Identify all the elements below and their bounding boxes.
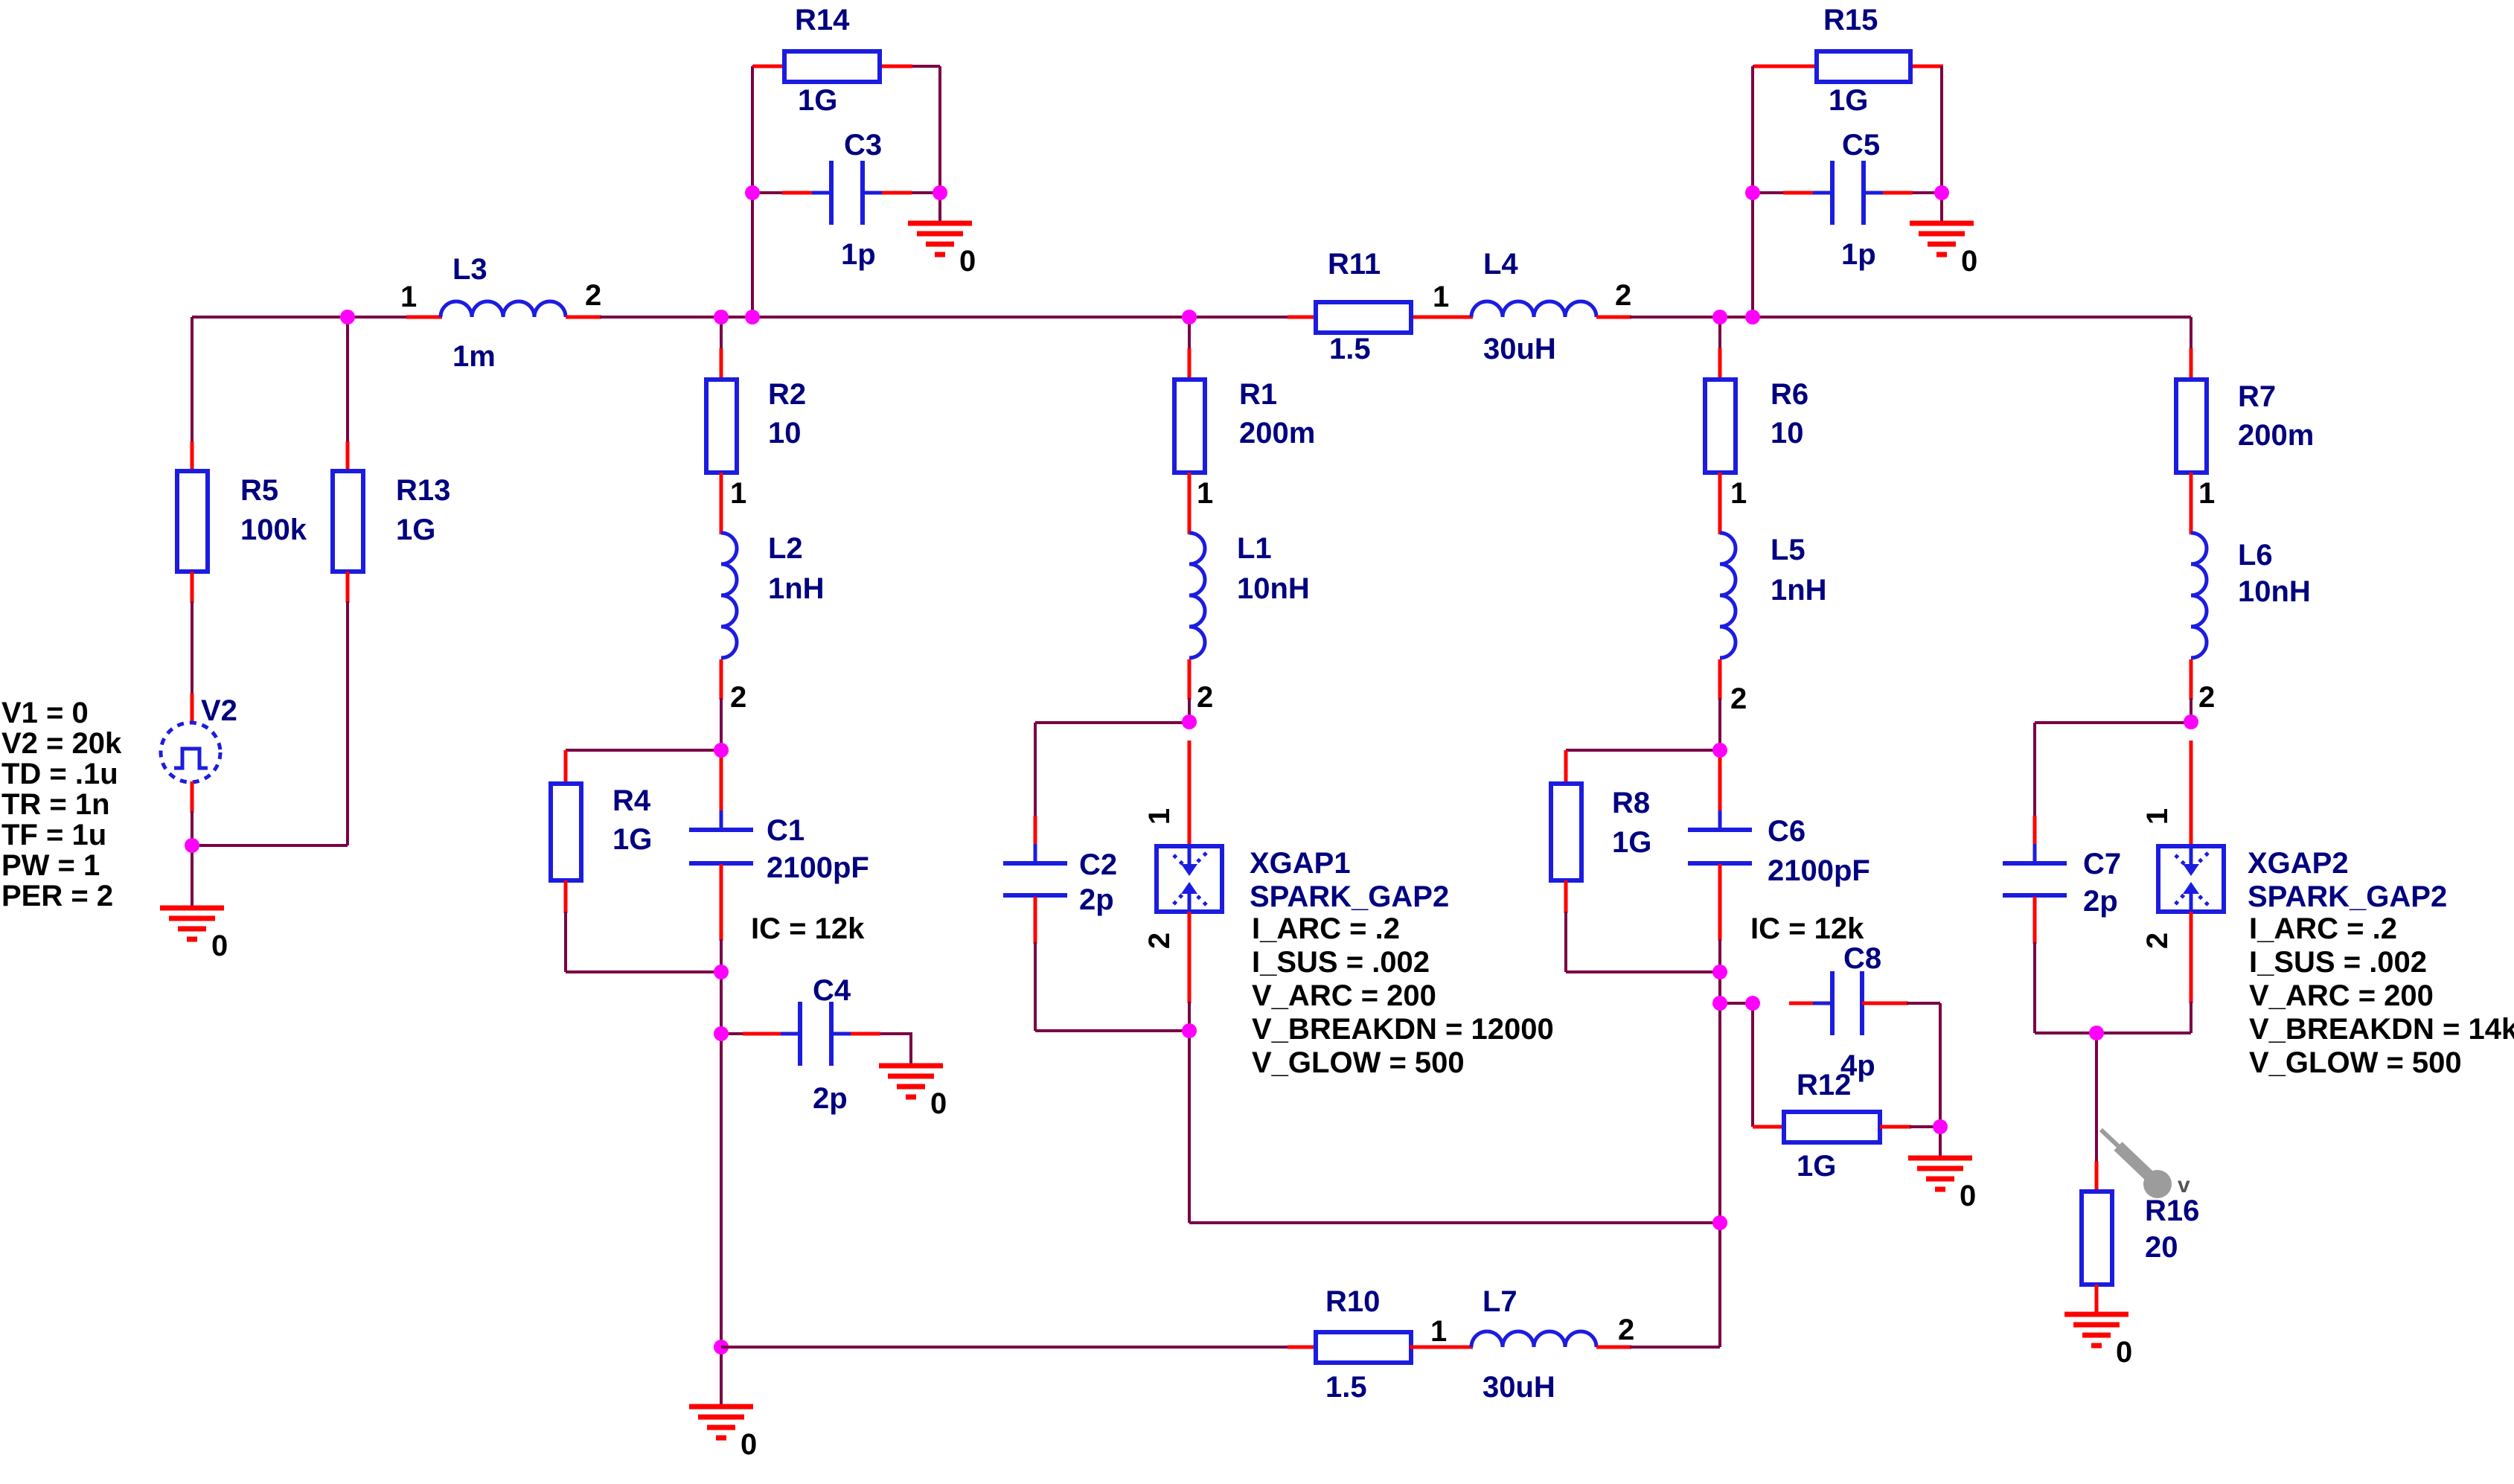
svg-text:TD = .1u: TD = .1u <box>1 758 118 790</box>
svg-text:0: 0 <box>959 245 976 278</box>
wire gnd stub D top <box>1940 193 1943 223</box>
svg-text:R2: R2 <box>768 378 806 411</box>
wire top bus right <box>1630 316 2191 319</box>
wire L5 to node <box>1718 698 1721 750</box>
svg-text:1G: 1G <box>396 514 435 546</box>
wire R4 left vertical <box>564 912 567 972</box>
svg-text:1: 1 <box>400 281 417 313</box>
inductor L7 coil <box>1471 1331 1596 1347</box>
svg-text:1: 1 <box>2141 808 2174 825</box>
node R16 tap <box>2089 1026 2104 1040</box>
label V2 parameters <box>1 697 122 912</box>
resistor R4 <box>551 784 581 880</box>
wire C7 top row <box>2035 721 2191 724</box>
svg-text:2p: 2p <box>2083 885 2118 918</box>
svg-text:2: 2 <box>1143 933 1176 949</box>
wire bottom bus right <box>1630 1346 1720 1349</box>
wire C2 left vertical lower <box>1034 942 1037 1031</box>
svg-text:PER = 2: PER = 2 <box>1 880 113 912</box>
node bus B loop <box>745 310 760 324</box>
label XGAP1 parameters <box>1252 912 1554 1079</box>
svg-text:C2: C2 <box>1079 848 1117 881</box>
svg-text:1: 1 <box>1143 808 1176 825</box>
svg-text:TF = 1u: TF = 1u <box>1 819 106 851</box>
resistor R13 <box>333 471 363 572</box>
node XGAP1 wire junction <box>1712 1215 1727 1230</box>
svg-text:SPARK_GAP2: SPARK_GAP2 <box>2248 880 2447 913</box>
svg-text:R12: R12 <box>1797 1069 1851 1101</box>
capacitor C5 <box>1813 161 1883 225</box>
svg-text:R15: R15 <box>1823 4 1878 36</box>
svg-text:200m: 200m <box>1239 417 1315 450</box>
svg-text:R5: R5 <box>240 474 278 507</box>
resistor R10 <box>1316 1332 1411 1363</box>
svg-text:1: 1 <box>2198 477 2215 510</box>
wire top bus mid <box>600 316 1289 319</box>
svg-text:2: 2 <box>1197 681 1213 714</box>
wire bottom bus left <box>721 1346 1289 1349</box>
svg-text:C8: C8 <box>1843 942 1881 975</box>
svg-text:1G: 1G <box>612 823 652 856</box>
svg-text:2: 2 <box>1618 1314 1634 1346</box>
wire E corner <box>2190 317 2192 350</box>
svg-text:30uH: 30uH <box>1483 333 1556 365</box>
svg-text:1nH: 1nH <box>1771 574 1827 607</box>
svg-text:1.5: 1.5 <box>1325 1371 1367 1404</box>
wire R13 down <box>346 601 349 845</box>
svg-text:1: 1 <box>1430 1315 1447 1348</box>
resistor R5 <box>177 471 208 572</box>
wire C8 right vertical <box>1939 1003 1942 1127</box>
svg-text:V1 = 0: V1 = 0 <box>1 697 89 729</box>
svg-text:1: 1 <box>1433 281 1449 313</box>
svg-text:C1: C1 <box>767 814 805 847</box>
inductor L2 coil <box>721 533 737 658</box>
svg-text:1: 1 <box>1730 477 1747 510</box>
svg-text:10nH: 10nH <box>1237 572 1310 605</box>
svg-text:10nH: 10nH <box>2238 575 2311 608</box>
resistor R7 <box>2176 380 2207 473</box>
svg-text:V2: V2 <box>201 694 237 727</box>
resistor R6 <box>1705 380 1736 473</box>
svg-text:2p: 2p <box>813 1082 848 1115</box>
svg-text:I_SUS = .002: I_SUS = .002 <box>2249 946 2427 979</box>
wire R16 drop <box>2095 1033 2098 1162</box>
svg-text:V_ARC = 200: V_ARC = 200 <box>1252 979 1436 1012</box>
resistor R14 <box>784 51 880 82</box>
wire XGAP1 to node <box>1188 1002 1191 1031</box>
wire B loop right vertical <box>938 66 941 194</box>
svg-text:R10: R10 <box>1325 1285 1380 1318</box>
node C5 left <box>1745 185 1760 200</box>
wire R4 top row <box>566 749 721 752</box>
svg-text:PW = 1: PW = 1 <box>1 849 100 882</box>
label XGAP2 parameters <box>2249 912 2514 1079</box>
ground R16 <box>2064 1314 2128 1346</box>
svg-text:0: 0 <box>1961 245 1977 278</box>
wire C5 row <box>1753 191 1942 194</box>
capacitor C4 <box>781 1002 851 1066</box>
node C5 right <box>1934 185 1949 200</box>
wire R5 to V2 <box>191 601 193 695</box>
wire R8 left vertical <box>1564 912 1567 972</box>
wire R6 stub <box>1718 317 1721 350</box>
svg-text:R4: R4 <box>612 784 651 817</box>
svg-text:I_SUS = .002: I_SUS = .002 <box>1252 946 1430 979</box>
wire V2 branch top <box>191 317 193 443</box>
svg-text:L2: L2 <box>768 532 803 565</box>
voltage probe V <box>2101 1130 2190 1198</box>
svg-text:0: 0 <box>211 930 228 962</box>
capacitor C6 <box>1688 810 1752 883</box>
wire C3 row <box>752 191 940 194</box>
svg-text:I_ARC = .2: I_ARC = .2 <box>1252 912 1400 945</box>
svg-text:C7: C7 <box>2083 848 2121 880</box>
svg-text:2100pF: 2100pF <box>1768 854 1870 887</box>
wire C4 row <box>721 1032 912 1035</box>
svg-text:10: 10 <box>1771 417 1804 450</box>
wire XGAP2 to node <box>2190 1002 2192 1033</box>
inductor L6 coil <box>2191 533 2207 658</box>
svg-text:R8: R8 <box>1612 787 1650 819</box>
svg-text:SPARK_GAP2: SPARK_GAP2 <box>1250 880 1449 913</box>
wire top bus left <box>192 316 406 319</box>
svg-text:I_ARC = .2: I_ARC = .2 <box>2249 912 2397 945</box>
svg-text:V_GLOW = 500: V_GLOW = 500 <box>1252 1046 1465 1079</box>
svg-text:2: 2 <box>585 279 601 312</box>
capacitor C2 <box>1003 844 1067 915</box>
wire B vertical mid <box>720 939 723 1347</box>
svg-text:R1: R1 <box>1239 378 1277 411</box>
inductor L1 coil <box>1189 533 1205 658</box>
svg-text:C4: C4 <box>813 974 851 1007</box>
svg-text:1G: 1G <box>1612 826 1651 859</box>
svg-text:C6: C6 <box>1768 815 1805 848</box>
node bus D loop <box>1745 310 1760 324</box>
node L2-R4 <box>714 743 729 758</box>
wire C7 left vertical lower <box>2033 942 2036 1033</box>
wire XGAP1 down <box>1188 1031 1191 1223</box>
wire C2 bottom row <box>1035 1029 1189 1032</box>
svg-text:0: 0 <box>2116 1336 2132 1369</box>
capacitor C8 <box>1813 971 1881 1035</box>
svg-text:V2 = 20k: V2 = 20k <box>1 727 122 760</box>
svg-text:1G: 1G <box>798 84 837 117</box>
svg-text:XGAP2: XGAP2 <box>2248 847 2349 880</box>
svg-text:V_GLOW = 500: V_GLOW = 500 <box>2249 1046 2462 1079</box>
wire R8 bottom row <box>1566 970 1720 973</box>
svg-text:1.5: 1.5 <box>1329 333 1371 365</box>
svg-text:2: 2 <box>730 681 746 714</box>
node C4 tap <box>714 1026 729 1041</box>
wire R2 stub <box>720 317 723 350</box>
inductor L4 coil <box>1471 301 1596 317</box>
wire C2 left vertical upper <box>1034 723 1037 817</box>
node C8 tap <box>1712 996 1727 1011</box>
svg-text:L6: L6 <box>2238 539 2273 572</box>
svg-text:L4: L4 <box>1483 248 1518 281</box>
resistor R12 <box>1784 1112 1880 1142</box>
wire L2 to node <box>720 698 723 750</box>
wire C7 bottom row <box>2035 1032 2191 1034</box>
svg-text:2: 2 <box>2198 681 2215 714</box>
capacitor C1 <box>689 810 753 883</box>
wire gnd stub A <box>191 845 193 908</box>
wire C7 left vertical upper <box>2033 723 2036 817</box>
wire R13 branch top <box>346 317 349 443</box>
svg-text:V_ARC = 200: V_ARC = 200 <box>2249 979 2434 1012</box>
node C3 right <box>933 185 947 200</box>
wire D loop right vertical <box>1940 66 1943 194</box>
svg-text:L1: L1 <box>1237 532 1272 565</box>
svg-text:R14: R14 <box>795 4 850 36</box>
resistor R8 <box>1551 784 1581 880</box>
wire V2 to gnd node <box>191 811 193 845</box>
node V2-gnd junction <box>185 838 199 853</box>
wire B loop left vertical <box>751 66 754 317</box>
inductor L5 coil <box>1720 533 1736 658</box>
node L1-C2 <box>1182 714 1197 729</box>
node L6-C7 <box>2184 714 2198 729</box>
svg-text:0: 0 <box>741 1428 757 1461</box>
wire gnd stub B top <box>938 193 941 223</box>
svg-text:1G: 1G <box>1797 1150 1836 1183</box>
node B bottom bus <box>714 1340 729 1355</box>
wire R4 bottom row <box>566 970 721 973</box>
resistor R15 <box>1817 51 1910 82</box>
wire R15 top row <box>1753 65 1942 68</box>
svg-text:XGAP1: XGAP1 <box>1250 847 1351 880</box>
svg-text:0: 0 <box>930 1087 947 1120</box>
wire XGAP1 bottom row <box>1189 1221 1720 1224</box>
svg-text:10: 10 <box>768 417 802 450</box>
resistor R16 <box>2082 1192 2112 1285</box>
capacitor C3 <box>812 161 882 225</box>
svg-text:L5: L5 <box>1771 534 1805 566</box>
svg-text:1G: 1G <box>1829 84 1868 117</box>
wire R8 top row <box>1566 749 1720 752</box>
svg-text:R16: R16 <box>2145 1194 2199 1227</box>
svg-text:20: 20 <box>2145 1231 2178 1264</box>
node R4 bottom <box>714 965 729 979</box>
wire bottom link A <box>192 844 348 847</box>
svg-text:1: 1 <box>1197 477 1213 510</box>
node XGAP1 bottom <box>1182 1023 1197 1038</box>
ground D top <box>1910 223 1974 255</box>
ground A <box>160 908 224 939</box>
wire C4 gnd drop <box>909 1034 912 1066</box>
node R8 bottom <box>1712 965 1727 979</box>
spark gap XGAP1 <box>1157 846 1222 912</box>
voltage source V2 <box>161 723 220 782</box>
svg-text:100k: 100k <box>240 514 307 546</box>
capacitor C7 <box>2003 844 2067 915</box>
node bus R2 <box>714 310 729 324</box>
svg-text:2: 2 <box>2141 933 2174 949</box>
svg-text:V_BREAKDN = 12000: V_BREAKDN = 12000 <box>1252 1013 1554 1046</box>
wire C8 left vertical <box>1751 1003 1754 1127</box>
spark gap XGAP2 <box>2158 846 2224 912</box>
wire C8 link <box>1720 1002 1753 1005</box>
svg-text:2: 2 <box>1615 279 1631 312</box>
node C3 left <box>745 185 760 200</box>
wire gnd stub B bottom <box>720 1347 723 1407</box>
wire R14 top row <box>752 65 940 68</box>
resistor R1 <box>1174 380 1205 473</box>
wire D vertical mid <box>1718 939 1721 1223</box>
svg-text:C3: C3 <box>844 129 882 161</box>
ground B bottom <box>689 1407 753 1438</box>
wire C2 top row <box>1035 721 1189 724</box>
svg-text:2p: 2p <box>1079 883 1114 916</box>
wire R1 stub <box>1188 317 1191 350</box>
svg-text:IC = 12k: IC = 12k <box>1750 912 1864 945</box>
node bus R6 <box>1712 310 1727 324</box>
wire D vertical low <box>1718 1223 1721 1347</box>
node bus R1 <box>1182 310 1197 324</box>
wire L6 to node <box>2190 698 2192 722</box>
svg-text:V_BREAKDN = 14k: V_BREAKDN = 14k <box>2249 1013 2514 1046</box>
ground C4 <box>879 1066 943 1097</box>
svg-text:1p: 1p <box>841 238 876 271</box>
wire L1 to node <box>1188 698 1191 722</box>
wire C8 right corner <box>1907 1002 1940 1005</box>
node L5-R8 <box>1712 743 1727 758</box>
svg-text:C5: C5 <box>1842 129 1880 161</box>
svg-text:0: 0 <box>1960 1180 1976 1212</box>
ground B top <box>908 223 972 255</box>
svg-text:R11: R11 <box>1328 248 1381 281</box>
svg-text:R6: R6 <box>1771 378 1808 411</box>
svg-text:L7: L7 <box>1483 1285 1517 1318</box>
resistor R11 <box>1316 302 1411 333</box>
node C8 left <box>1745 996 1760 1011</box>
svg-text:R7: R7 <box>2238 380 2276 413</box>
svg-text:1: 1 <box>730 477 746 510</box>
svg-text:200m: 200m <box>2238 419 2314 452</box>
wire D loop left vertical <box>1751 66 1754 317</box>
svg-text:TR = 1n: TR = 1n <box>1 788 110 821</box>
svg-text:L3: L3 <box>452 253 487 286</box>
svg-text:2: 2 <box>1730 682 1747 715</box>
wire R12 right link <box>1910 1125 1940 1128</box>
svg-text:R13: R13 <box>396 474 450 507</box>
svg-text:2100pF: 2100pF <box>767 851 869 884</box>
svg-text:1p: 1p <box>1841 238 1876 271</box>
node L3 bus junction <box>340 310 355 324</box>
ground R12 <box>1908 1158 1972 1189</box>
svg-text:IC = 12k: IC = 12k <box>751 912 865 945</box>
svg-text:30uH: 30uH <box>1483 1371 1555 1404</box>
svg-text:1m: 1m <box>452 340 496 373</box>
svg-text:1nH: 1nH <box>768 572 825 605</box>
wire gnd stub R12 <box>1939 1127 1942 1158</box>
resistor R2 <box>706 380 737 473</box>
node R12 right <box>1933 1119 1948 1134</box>
inductor L3 coil <box>441 301 566 317</box>
